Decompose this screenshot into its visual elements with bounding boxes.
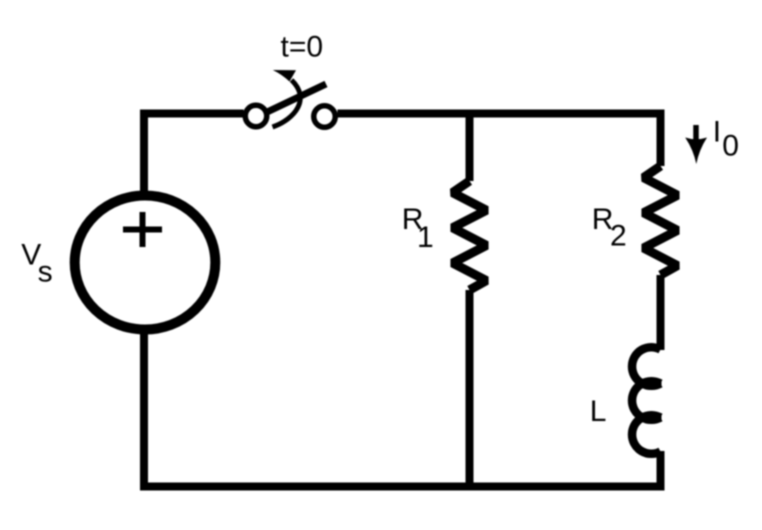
label R1 bbox=[402, 203, 434, 254]
switch right contact circle bbox=[314, 106, 336, 128]
wire bottom bbox=[140, 483, 665, 491]
resistor R1 zigzag bbox=[453, 181, 487, 290]
switch left contact circle bbox=[245, 105, 267, 127]
wire source bottom to bottom-left corner bbox=[140, 330, 148, 487]
wire L bottom bbox=[657, 451, 665, 490]
wire R1 bottom bbox=[466, 290, 474, 490]
wire top-left from source to switch bbox=[144, 114, 244, 197]
switch blade bbox=[265, 84, 326, 113]
current arrow I0 head bbox=[685, 138, 707, 165]
label Vs bbox=[21, 239, 52, 289]
voltage source plus sign bbox=[123, 212, 162, 247]
resistor R2 zigzag bbox=[644, 166, 678, 275]
switch motion arrowhead bbox=[273, 70, 296, 82]
wire top-right from switch to R2 branch corner bbox=[338, 114, 661, 167]
current arrow I0 shaft bbox=[693, 125, 699, 144]
svg-text:L: L bbox=[590, 395, 607, 428]
svg-text:I: I bbox=[713, 116, 721, 149]
svg-text:2: 2 bbox=[610, 220, 627, 253]
svg-text:0: 0 bbox=[722, 130, 739, 163]
wire between R2 and L bbox=[657, 275, 665, 350]
label R2 bbox=[592, 203, 627, 253]
svg-text:t=0: t=0 bbox=[281, 30, 324, 63]
voltage source Vs circle bbox=[75, 196, 216, 330]
svg-text:s: s bbox=[38, 255, 53, 288]
wire R1 top tee bbox=[466, 110, 474, 181]
svg-text:1: 1 bbox=[417, 221, 434, 254]
label I0 bbox=[713, 116, 739, 163]
switch motion arc bbox=[273, 80, 301, 127]
inductor L coil bbox=[632, 347, 661, 454]
